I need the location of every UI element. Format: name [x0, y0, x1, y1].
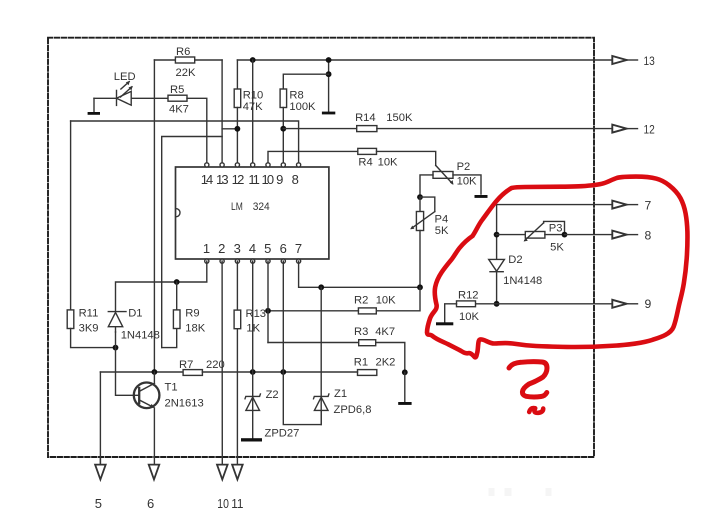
resistor R3: [359, 340, 376, 346]
zener Z1: [314, 394, 329, 399]
svg-text:R2: R2: [354, 294, 368, 306]
junction D2/P3 left: [494, 232, 500, 238]
wire output 9 line: [497, 303, 613, 305]
junction pin6 line / row: [280, 369, 286, 375]
wire R10 top lead: [236, 60, 238, 89]
svg-text:R3: R3: [354, 326, 368, 338]
wire R3 left lead: [268, 342, 359, 344]
svg-text:10: 10: [261, 172, 274, 187]
svg-text:2N1613: 2N1613: [165, 398, 204, 410]
wire output 5 stem: [99, 372, 101, 465]
junction rail/ground drop: [326, 57, 332, 63]
svg-text:7: 7: [645, 198, 652, 212]
svg-text:R1: R1: [354, 357, 368, 369]
wire R4 left lead with pin10 drop: [268, 151, 358, 162]
wire D1 top row y=282 to pin 1: [116, 261, 207, 311]
wire R2 left lead to pin 5 bus: [268, 310, 358, 312]
wire Z1 bottom loop: [283, 372, 321, 425]
output arrow 12: [612, 125, 626, 133]
junction R9 top: [174, 279, 180, 285]
resistor R9: [173, 310, 180, 329]
wire R8 top branch: [283, 74, 328, 89]
potentiometer P2: [433, 172, 453, 179]
wire R11 top lead vertical x=70.6: [70, 121, 72, 310]
svg-text:12: 12: [232, 172, 245, 187]
ground LED: [93, 98, 95, 112]
wire R12 left lead to ground: [445, 304, 457, 323]
svg-text:D1: D1: [128, 308, 142, 320]
junction R8 branch/ground drop: [326, 71, 332, 77]
potentiometer P4: [419, 197, 421, 211]
output terminal 5 triangle: [99, 457, 101, 465]
svg-text:2K2: 2K2: [376, 357, 396, 369]
junction rail/pin11: [250, 57, 256, 63]
svg-text:R9: R9: [185, 308, 199, 320]
wire R2 right lead: [376, 287, 420, 311]
wire P4 wiper bracket: [420, 197, 435, 212]
svg-text:LM: LM: [231, 201, 243, 213]
wire R9 bottom loop: [162, 329, 177, 348]
diode D2: [489, 259, 505, 271]
wire pin 3 to R13: [236, 261, 238, 310]
pin 9 circle: [281, 163, 285, 167]
resistor R13: [234, 310, 241, 329]
svg-text:10K: 10K: [459, 311, 479, 323]
junction P3 right / output 8: [562, 232, 568, 238]
svg-text:5: 5: [95, 496, 102, 511]
pin 12 circle: [235, 163, 239, 167]
top pin numbers 14 13 12 11 10 9 8: [201, 172, 299, 187]
svg-text:6: 6: [147, 496, 154, 511]
svg-text:13: 13: [216, 172, 229, 187]
ground R1: [398, 402, 411, 405]
svg-text:R14: R14: [355, 112, 376, 124]
dashed border frame: [48, 38, 594, 457]
wire pin 7 to node row y=287.3: [299, 261, 420, 287]
output arrow 13: [612, 56, 626, 64]
resistor R6: [175, 57, 194, 63]
wire P3 left lead: [497, 234, 526, 236]
wire LED anode to R5: [94, 97, 168, 99]
pin 13 circle: [220, 163, 224, 167]
wire ground stem R1: [404, 372, 406, 402]
resistor R10: [234, 89, 241, 108]
junction R12/output 9: [494, 301, 500, 307]
svg-text:1N4148: 1N4148: [503, 275, 542, 287]
wire R14 left lead: [283, 128, 356, 130]
resistor R2: [358, 308, 376, 314]
wire output 7 line: [497, 205, 613, 304]
pin 11 circle: [251, 163, 255, 167]
svg-text:Z2: Z2: [266, 389, 279, 401]
svg-text:P3: P3: [549, 223, 563, 235]
wire Z2 bottom stem: [252, 396, 254, 438]
U1 left-edge notch: [176, 209, 180, 217]
wire R6 right lead: [195, 59, 222, 61]
wire P2 left lead: [420, 175, 433, 197]
red question mark: [509, 362, 547, 397]
svg-text:10: 10: [217, 496, 229, 511]
wire R10 bottom lead to pin 12: [236, 108, 238, 163]
ground top (near R8): [322, 112, 335, 115]
junction R1/R3 ground node: [402, 369, 408, 375]
svg-text:P2: P2: [457, 161, 471, 173]
svg-text:10K: 10K: [457, 175, 477, 187]
pin 10 circle: [266, 163, 270, 167]
diode D1: [108, 311, 126, 313]
svg-text:LED: LED: [114, 71, 136, 83]
wire branch pin13 to R10 bottom node: [222, 128, 237, 130]
wire T1 emitter to output 6: [153, 408, 155, 465]
wire R14 right lead to output 12: [377, 128, 613, 130]
svg-text:5: 5: [264, 241, 271, 256]
svg-text:11: 11: [248, 172, 259, 187]
resistor R7: [183, 370, 202, 376]
pin 5 circle: [266, 259, 270, 263]
ground Z2: [241, 438, 262, 441]
wire pin 5 vertical: [267, 261, 269, 342]
svg-text:9: 9: [276, 172, 283, 187]
wire R5 right lead to pin 14: [187, 98, 207, 162]
wire P4 bottom lead: [419, 231, 421, 288]
svg-text:3K9: 3K9: [79, 322, 99, 334]
wire pin 11 vertical: [252, 60, 254, 163]
red question mark dot: [529, 408, 543, 413]
wire branch y=136.5 pin13 bus to R9 bus: [162, 137, 222, 348]
wire pin 2 to output 10: [221, 261, 223, 465]
svg-text:10K: 10K: [378, 157, 398, 169]
svg-text:12: 12: [644, 123, 655, 137]
wire R9 top lead: [176, 282, 178, 310]
potentiometer P3: [525, 232, 545, 239]
svg-text:22K: 22K: [176, 67, 196, 79]
junction D1 anode / T1 base branch: [113, 345, 119, 351]
wire R7 right to R1 left: [202, 371, 357, 373]
red annotation loop: [427, 177, 687, 358]
output arrow 8: [612, 231, 626, 239]
wire ground drop x=328.6: [328, 60, 330, 112]
output terminal 10 triangle: [217, 465, 228, 480]
wire R8 bottom lead to pin 9: [282, 108, 284, 163]
junction Z1 top: [318, 284, 324, 290]
svg-text:R7: R7: [179, 359, 193, 371]
junction P4/R2 node: [417, 284, 423, 290]
svg-text:5K: 5K: [550, 242, 564, 254]
transistor T1: [134, 383, 160, 409]
junction T1 collector: [152, 369, 158, 375]
junction R10/pin12/branch: [235, 126, 241, 132]
ground P2: [475, 195, 488, 198]
op-amp U1 LM324 body: [176, 167, 329, 259]
svg-text:ZPD6,8: ZPD6,8: [334, 404, 372, 416]
wire T1 collector: [153, 372, 155, 383]
svg-text:10K: 10K: [376, 294, 396, 306]
wire P3 wiper bracket: [544, 221, 565, 234]
svg-text:4K7: 4K7: [375, 326, 395, 338]
svg-text:5K: 5K: [435, 225, 449, 237]
wire R6 left lead: [154, 59, 175, 61]
wire pin 4 vertical to Z2: [252, 261, 254, 396]
svg-text:150K: 150K: [386, 112, 413, 124]
svg-text:R4: R4: [358, 157, 372, 169]
svg-text:324: 324: [253, 201, 270, 213]
svg-text:R12: R12: [458, 289, 479, 301]
wire R12 right lead: [476, 303, 497, 305]
svg-text:Z1: Z1: [334, 388, 347, 400]
wire R6 right vertical to pin 13: [221, 60, 223, 163]
wire output 8 line: [565, 234, 613, 236]
wire vertical R6/R5 left bus x=154.4 with hop arc: [153, 60, 155, 372]
wire collector row y=372 R7 line: [100, 371, 183, 373]
junction P2/P4 node: [417, 194, 423, 200]
resistor R11: [67, 310, 74, 329]
svg-text:1: 1: [203, 241, 210, 256]
output terminal 11 triangle: [232, 465, 243, 480]
resistor R12: [457, 301, 476, 307]
resistor R5: [168, 95, 187, 101]
junction pin4 line / row: [250, 369, 256, 375]
resistor R14: [357, 126, 377, 132]
svg-text:4: 4: [249, 241, 256, 256]
svg-text:3: 3: [234, 241, 241, 256]
wire top supply rail y=60: [237, 59, 612, 61]
junction pin5 bus / R2: [265, 308, 271, 314]
pin 14 circle: [205, 163, 209, 167]
svg-text:100K: 100K: [289, 101, 316, 113]
svg-text:14: 14: [201, 172, 213, 187]
wire R3 right lead down: [376, 343, 405, 373]
svg-text:6: 6: [280, 241, 287, 256]
wire Z1 top stem: [320, 287, 322, 424]
resistor R4: [358, 148, 377, 154]
svg-text:4K7: 4K7: [169, 104, 189, 116]
resistor R8: [280, 89, 287, 108]
svg-text:D2: D2: [508, 254, 522, 266]
junction R8/pin9/R14: [280, 126, 286, 132]
svg-text:2: 2: [218, 241, 225, 256]
svg-text:1K: 1K: [246, 323, 260, 335]
svg-text:18K: 18K: [185, 322, 205, 334]
svg-text:R6: R6: [176, 46, 190, 58]
output arrow 9: [612, 300, 626, 308]
pin 8 circle: [297, 163, 301, 167]
wire R11 bottom loop to D1 anode: [71, 329, 116, 348]
wire pin 6 vertical: [282, 261, 284, 372]
resistor R1: [358, 370, 377, 376]
svg-text:13: 13: [644, 54, 655, 68]
pin 4 circle: [251, 259, 255, 263]
wire R13 bottom to output 11: [236, 329, 238, 465]
svg-text:1N4148: 1N4148: [121, 330, 160, 342]
wire P2 right lead to ground: [453, 175, 481, 194]
output terminal 6 triangle: [149, 465, 160, 480]
wire D1 anode down then T1 base lead: [116, 332, 140, 395]
svg-text:8: 8: [292, 172, 299, 187]
svg-text:7: 7: [295, 241, 302, 256]
pin 3 circle: [235, 259, 239, 263]
svg-text:11: 11: [231, 496, 243, 511]
svg-text:R11: R11: [79, 308, 99, 320]
ground R12: [436, 322, 453, 325]
pin 2 circle: [220, 259, 224, 263]
wire long horizontal net y=121 from R11 to pin 8: [71, 121, 299, 163]
svg-text:9: 9: [645, 297, 652, 311]
svg-text:8: 8: [645, 228, 652, 242]
bottom pin numbers 1 2 3 4 5 6 7: [203, 241, 302, 256]
pin 7 circle: [297, 259, 301, 263]
pin 1 circle: [205, 259, 209, 263]
svg-text:R5: R5: [170, 84, 184, 96]
wire P3 right lead: [545, 234, 565, 236]
zener Z2: [245, 394, 260, 399]
output arrow 7: [612, 201, 626, 209]
svg-text:P4: P4: [435, 214, 449, 226]
svg-text:ZPD27: ZPD27: [265, 427, 300, 439]
pin 6 circle: [281, 259, 285, 263]
svg-text:R8: R8: [289, 90, 303, 102]
svg-text:T1: T1: [165, 382, 178, 394]
LED D3 symbol: [116, 90, 118, 105]
faint scan marks (decor): [489, 488, 552, 496]
wire R4 right lead to P2 wiper: [377, 151, 436, 165]
svg-text:R13: R13: [246, 308, 267, 320]
